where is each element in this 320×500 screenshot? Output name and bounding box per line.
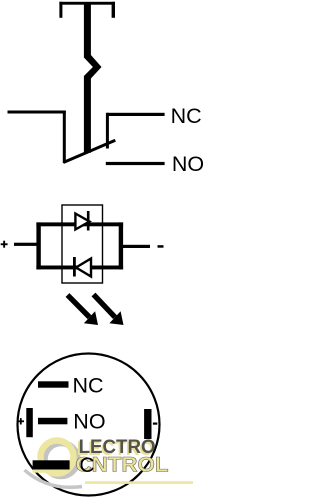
svg-text:NC: NC <box>171 104 202 128</box>
svg-text:NO: NO <box>172 152 204 176</box>
svg-text:NC: NC <box>73 374 104 398</box>
svg-text:C: C <box>79 454 94 477</box>
svg-text:NO: NO <box>73 410 105 434</box>
